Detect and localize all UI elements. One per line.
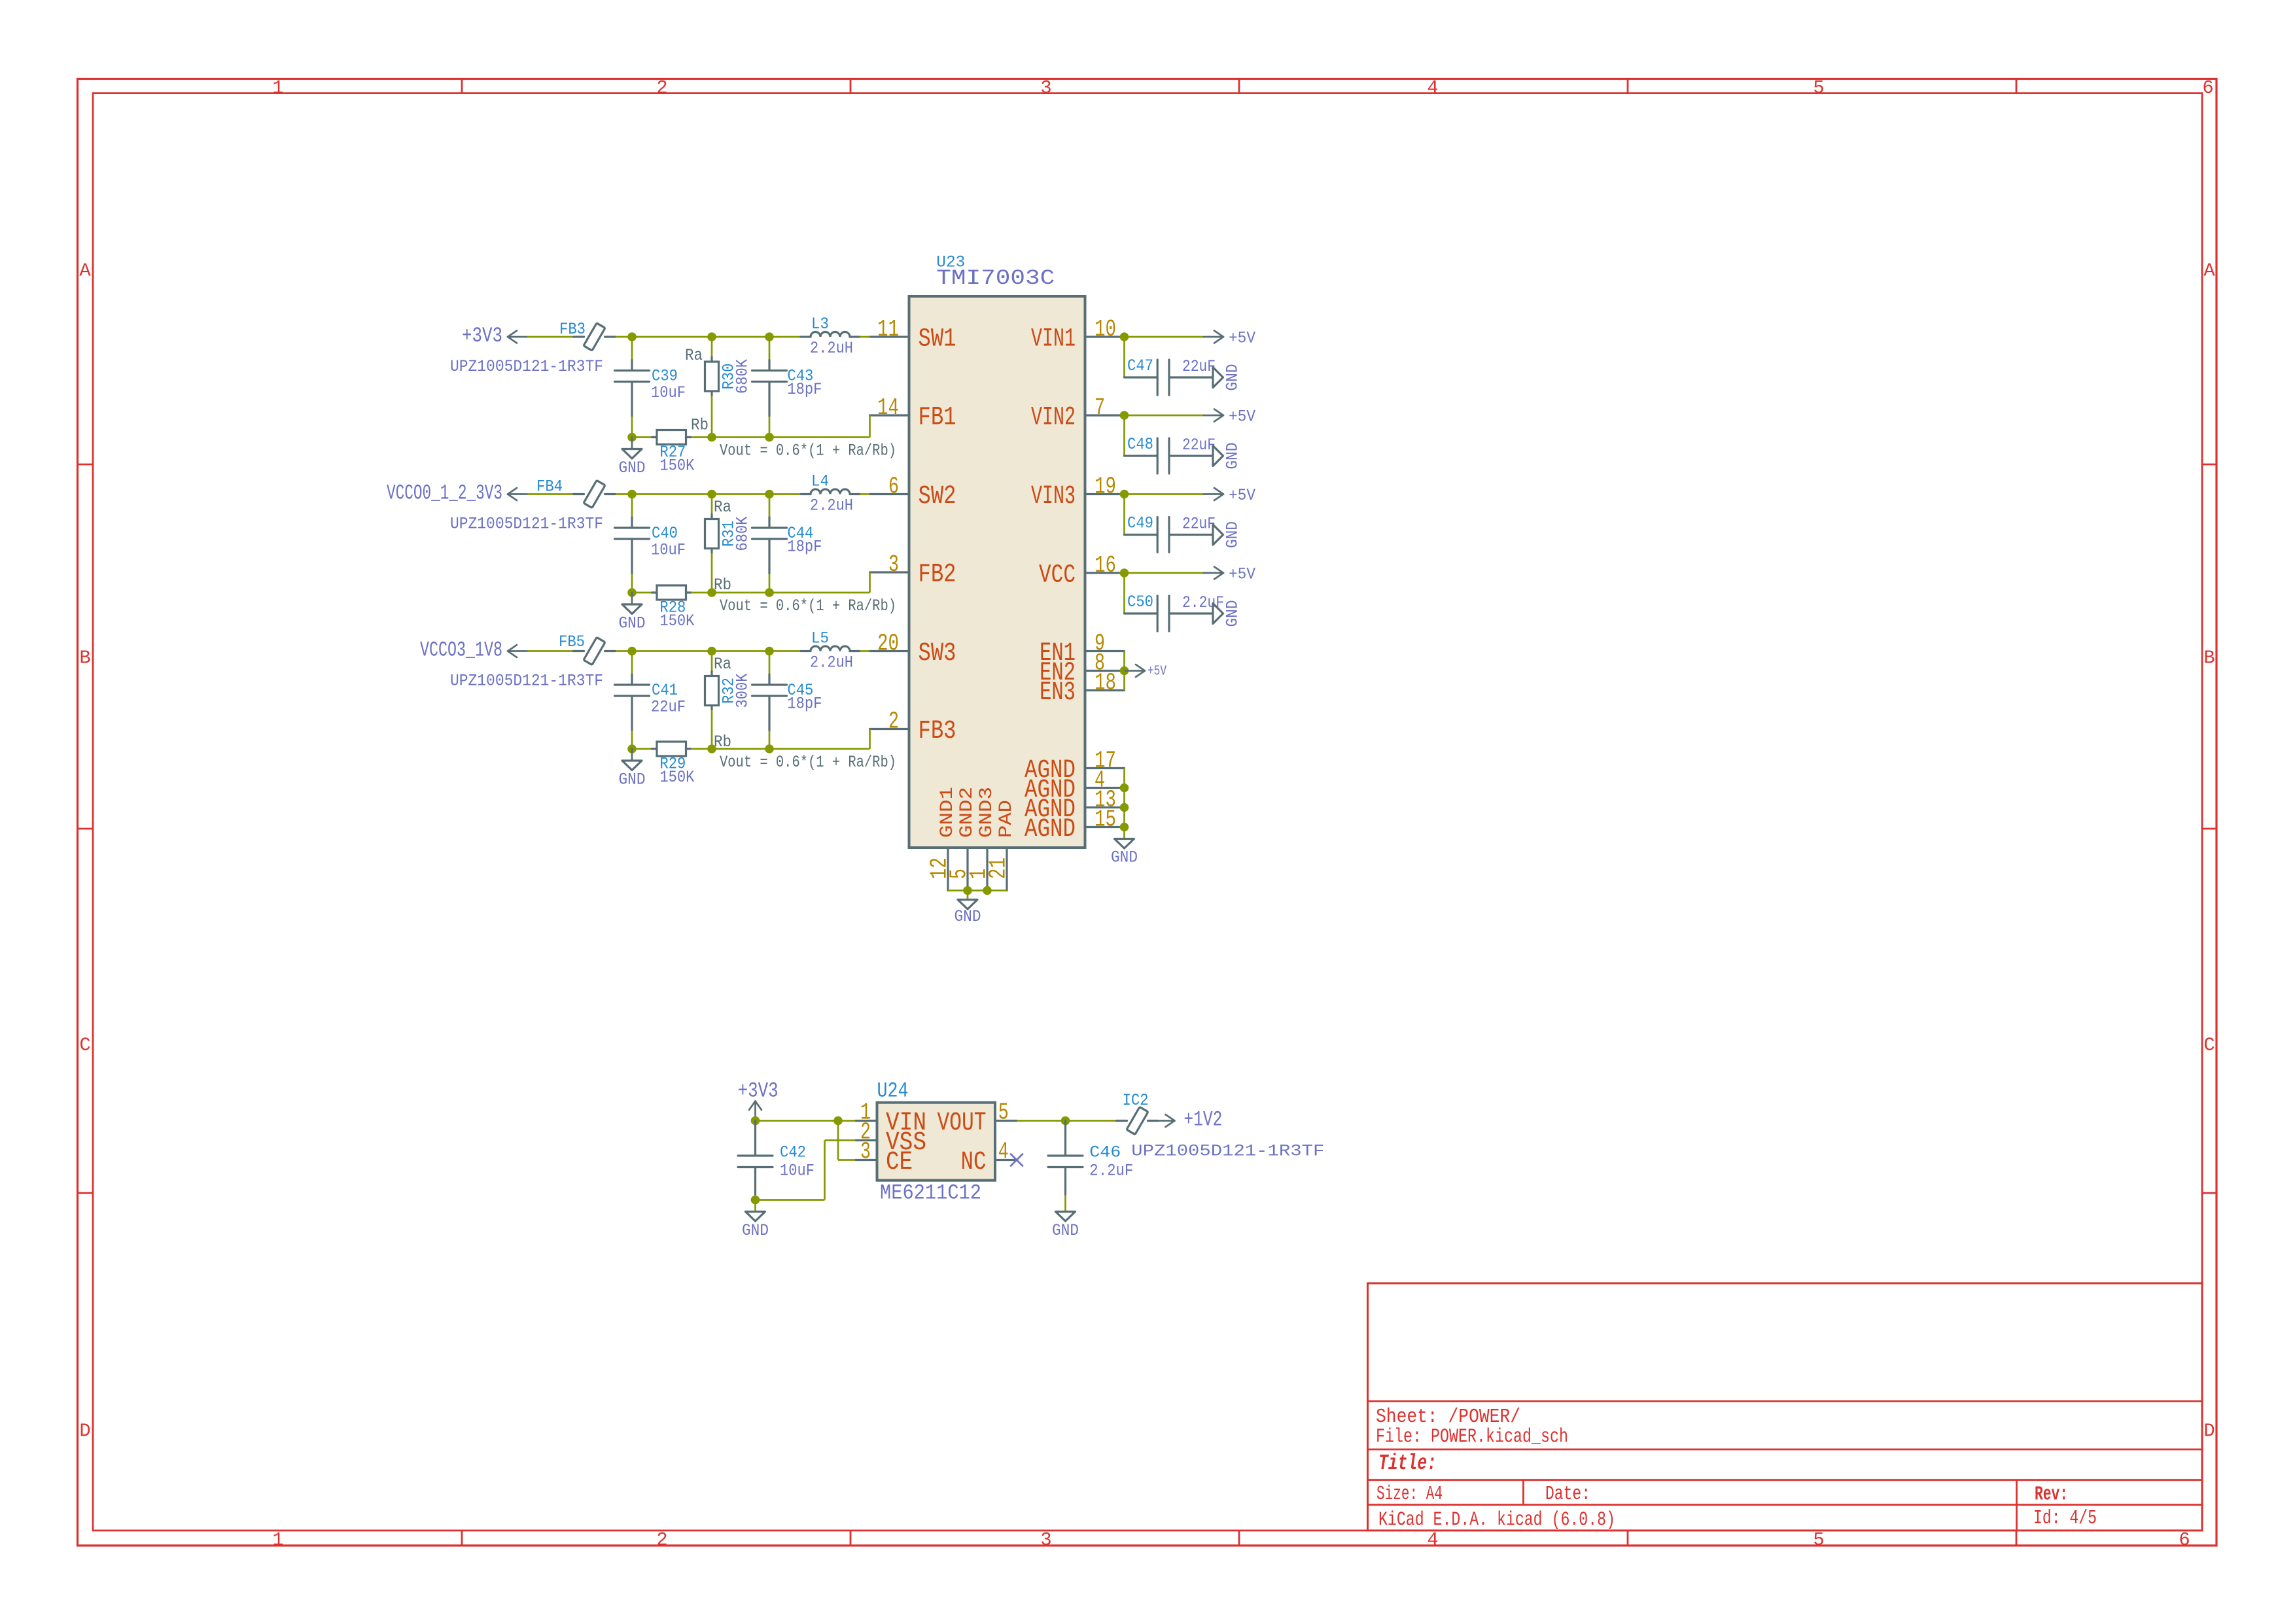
U24 pin 4 NC <box>995 1159 1017 1161</box>
ground <box>631 438 633 449</box>
svg-text:7: 7 <box>1095 394 1105 421</box>
svg-text:3: 3 <box>860 1139 871 1166</box>
svg-text:Vout = 0.6*(1 + Ra/Rb): Vout = 0.6*(1 + Ra/Rb) <box>720 753 896 772</box>
wire VSS down <box>825 1139 856 1141</box>
wire C40 col top lead <box>631 494 633 518</box>
svg-text:22uF: 22uF <box>1182 515 1216 534</box>
wire top rail 3 <box>769 493 801 495</box>
node AGND 15 <box>1120 823 1129 832</box>
svg-text:18pF: 18pF <box>787 538 822 557</box>
svg-text:GND: GND <box>955 907 981 926</box>
wire to +5V <box>1125 415 1204 417</box>
wire to +5V <box>1125 336 1204 338</box>
capacitor C43 <box>768 360 770 370</box>
svg-text:5: 5 <box>1813 1529 1824 1551</box>
U23 pin 11 SW1 <box>870 336 909 337</box>
wire C44 col top lead <box>769 494 771 518</box>
IC U23 body <box>909 296 1085 848</box>
svg-text:SW2: SW2 <box>919 481 956 511</box>
ground <box>1213 525 1223 545</box>
node VIN U24 <box>833 1116 843 1126</box>
capacitor C50 <box>1125 612 1157 614</box>
power flag +3V3 <box>508 336 527 338</box>
wire EN1-EN3 tie <box>1123 651 1125 691</box>
U23 pin 6 SW2 <box>870 493 909 495</box>
wire rail right <box>712 592 769 594</box>
ground <box>1213 604 1223 624</box>
wire rail left <box>632 748 652 750</box>
wire C43 col bottom lead <box>769 417 771 438</box>
wire R30 top lead <box>711 337 713 357</box>
svg-text:150K: 150K <box>659 612 694 631</box>
wire top rail 3 <box>769 336 801 338</box>
wire top rail 1 <box>632 650 712 652</box>
svg-text:Size: A4: Size: A4 <box>1376 1483 1443 1506</box>
wire C39 col top lead <box>631 337 633 360</box>
capacitor C41 <box>631 674 633 683</box>
svg-text:10uF: 10uF <box>651 541 686 560</box>
svg-text:L3: L3 <box>811 315 829 334</box>
wire R31 top lead <box>711 494 713 515</box>
svg-text:+5V: +5V <box>1147 665 1166 680</box>
wire top rail 2 <box>712 493 769 495</box>
node gnd rail <box>627 433 637 442</box>
power flag +1V2 <box>1159 1120 1175 1122</box>
node Rb <box>707 588 716 597</box>
svg-text:Title:: Title: <box>1378 1451 1437 1476</box>
svg-text:19: 19 <box>1095 474 1116 500</box>
svg-text:C: C <box>79 1035 90 1056</box>
svg-text:4: 4 <box>1427 1529 1438 1551</box>
svg-text:+5V: +5V <box>1229 329 1255 348</box>
node VIN C48 <box>1120 411 1129 420</box>
svg-text:2.2uH: 2.2uH <box>810 339 853 358</box>
U23 pin 1 GND3 <box>986 848 988 891</box>
svg-text:Sheet: /POWER/: Sheet: /POWER/ <box>1376 1406 1520 1428</box>
ground C42 <box>746 1212 765 1222</box>
wire rail mid <box>691 748 712 750</box>
svg-text:FB1: FB1 <box>919 403 956 432</box>
wire +3V3 to junction <box>756 1120 839 1122</box>
wire C41 col bottom lead <box>631 731 633 749</box>
svg-text:Rb: Rb <box>691 416 709 435</box>
wire down to C47 <box>1123 341 1125 377</box>
svg-text:FB3: FB3 <box>919 716 956 746</box>
wire bead to C node <box>616 650 632 652</box>
node GND3 <box>983 886 992 895</box>
svg-text:C47: C47 <box>1127 356 1153 375</box>
svg-text:File: POWER.kicad_sch: File: POWER.kicad_sch <box>1376 1426 1568 1449</box>
svg-text:CE: CE <box>886 1147 913 1177</box>
svg-text:UPZ1005D121-1R3TF: UPZ1005D121-1R3TF <box>450 672 603 691</box>
svg-text:Vout = 0.6*(1 + Ra/Rb): Vout = 0.6*(1 + Ra/Rb) <box>720 596 896 615</box>
svg-text:SW3: SW3 <box>919 638 956 668</box>
ferrite bead FB5 <box>574 650 584 652</box>
svg-text:GND3: GND3 <box>977 787 997 838</box>
U23 pin 13 AGND <box>1085 806 1125 808</box>
U24 pin 1 VIN <box>856 1120 877 1122</box>
svg-text:22uF: 22uF <box>651 698 686 717</box>
svg-text:18pF: 18pF <box>787 380 822 399</box>
svg-text:EN3: EN3 <box>1040 678 1076 707</box>
ferrite bead FB4 <box>574 493 584 495</box>
resistor R31 <box>710 515 712 519</box>
node top R32 <box>707 647 716 656</box>
svg-text:150K: 150K <box>659 457 694 475</box>
svg-text:UPZ1005D121-1R3TF: UPZ1005D121-1R3TF <box>450 357 603 376</box>
svg-text:20: 20 <box>877 631 899 657</box>
ground C46 <box>1056 1212 1076 1222</box>
U23 pin 19 VIN3 <box>1085 493 1125 495</box>
svg-text:10uF: 10uF <box>780 1162 815 1181</box>
svg-text:L4: L4 <box>811 472 829 491</box>
svg-text:VCCO0_1_2_3V3: VCCO0_1_2_3V3 <box>387 481 502 506</box>
svg-text:ME6211C12: ME6211C12 <box>880 1181 981 1205</box>
node VIN C47 <box>1120 332 1129 341</box>
svg-text:GND: GND <box>1223 364 1242 391</box>
capacitor C49 <box>1125 534 1157 536</box>
node AGND 4 <box>1120 784 1129 793</box>
IC U24 body <box>877 1103 996 1181</box>
svg-text:GND: GND <box>1223 521 1242 548</box>
svg-text:VIN3: VIN3 <box>1031 481 1076 511</box>
svg-text:KiCad E.D.A. kicad (6.0.8): KiCad E.D.A. kicad (6.0.8) <box>1378 1510 1615 1532</box>
power flag +5V <box>1204 336 1223 338</box>
node AGND 13 <box>1120 803 1129 812</box>
wire C44 col bottom lead <box>769 574 771 593</box>
svg-text:+5V: +5V <box>1229 565 1255 584</box>
wire rail to FB step <box>769 436 870 438</box>
resistor R27 <box>652 436 657 438</box>
svg-text:VCC: VCC <box>1039 561 1076 590</box>
svg-text:150K: 150K <box>659 768 694 787</box>
ferrite bead FB3 <box>574 336 584 337</box>
wire rail left <box>632 592 652 594</box>
node C46 <box>1061 1116 1070 1126</box>
capacitor C44 <box>768 517 770 527</box>
ground <box>631 749 633 761</box>
svg-text:C48: C48 <box>1127 435 1153 454</box>
node +3V3 U24 <box>751 1116 760 1126</box>
svg-text:PAD: PAD <box>996 800 1017 838</box>
wire rail mid <box>691 592 712 594</box>
svg-text:Id: 4/5: Id: 4/5 <box>2033 1508 2097 1530</box>
wire C45 col top lead <box>769 651 771 675</box>
wire down to C48 <box>1123 419 1125 456</box>
U23 pin 17 AGND <box>1085 767 1125 769</box>
svg-text:14: 14 <box>877 394 899 421</box>
svg-text:2.2uH: 2.2uH <box>810 496 853 515</box>
U23 pin 5 GND2 <box>966 848 968 891</box>
wire label to bead <box>527 336 574 338</box>
wire VOUT <box>1017 1120 1066 1122</box>
wire rail right <box>712 436 769 438</box>
U23 pin 20 SW3 <box>870 650 909 652</box>
svg-text:1: 1 <box>272 1529 283 1551</box>
svg-text:+5V: +5V <box>1229 486 1255 505</box>
svg-text:11: 11 <box>877 316 899 343</box>
svg-text:VIN2: VIN2 <box>1031 403 1076 432</box>
wire AGND down <box>1123 827 1125 839</box>
capacitor C42 <box>754 1121 756 1155</box>
wire CE tie <box>837 1121 839 1160</box>
wire R31 bottom lead <box>711 553 713 593</box>
power flag VCCO3_1V8 <box>508 650 527 652</box>
svg-text:16: 16 <box>1095 552 1116 579</box>
ferrite bead IC2 <box>1117 1120 1127 1122</box>
svg-text:1: 1 <box>272 77 283 99</box>
node top R30 <box>707 332 716 341</box>
svg-text:L5: L5 <box>811 629 829 648</box>
svg-text:GND: GND <box>1223 600 1242 627</box>
node gnd rail <box>627 744 637 753</box>
wire to +5V <box>1125 572 1204 574</box>
node gnd rail <box>627 588 637 597</box>
svg-text:D: D <box>2203 1421 2215 1442</box>
node Rb <box>707 433 716 442</box>
U24 pin 2 VSS <box>856 1139 877 1141</box>
svg-text:+1V2: +1V2 <box>1183 1108 1222 1132</box>
svg-text:C: C <box>2203 1035 2215 1056</box>
wire C40 col bottom lead <box>631 574 633 593</box>
svg-text:Rev:: Rev: <box>2035 1484 2068 1506</box>
capacitor C48 <box>1125 455 1157 457</box>
svg-text:GND: GND <box>619 458 646 477</box>
svg-text:680K: 680K <box>733 359 752 394</box>
node C43 bottom <box>765 433 774 442</box>
node C45 bottom <box>765 744 774 753</box>
wire inductor to pin <box>860 493 870 495</box>
resistor R28 <box>652 591 657 593</box>
wire top rail 2 <box>712 336 769 338</box>
node VIN C49 <box>1120 490 1129 499</box>
wire label to bead <box>527 493 574 495</box>
svg-text:TMI7003C: TMI7003C <box>936 266 1055 290</box>
wire bottom gnd <box>948 890 1007 891</box>
ground <box>1213 446 1223 466</box>
svg-text:GND: GND <box>619 614 646 633</box>
U23 pin 10 VIN1 <box>1085 336 1125 337</box>
wire top rail 3 <box>769 650 801 652</box>
svg-text:+3V3: +3V3 <box>738 1079 779 1103</box>
svg-text:21: 21 <box>985 857 1012 879</box>
wire C39 col bottom lead <box>631 417 633 438</box>
svg-text:SW1: SW1 <box>919 324 956 354</box>
svg-text:IC2: IC2 <box>1123 1091 1149 1110</box>
wire inductor to pin <box>860 650 870 652</box>
wire to IC2 <box>1066 1120 1117 1122</box>
power flag +5V <box>1125 670 1145 672</box>
wire to gnd <box>754 1200 756 1212</box>
svg-text:GND: GND <box>619 770 646 789</box>
svg-text:C50: C50 <box>1127 593 1153 612</box>
power flag +3V3 <box>754 1101 756 1121</box>
wire C42 bottom <box>754 1195 756 1200</box>
node top R31 <box>707 490 716 499</box>
wire C43 col top lead <box>769 337 771 360</box>
wire rail mid <box>691 436 712 438</box>
svg-text:FB5: FB5 <box>559 632 585 651</box>
ground AGND <box>1115 839 1134 849</box>
svg-text:FB2: FB2 <box>919 560 956 589</box>
wire top rail 2 <box>712 650 769 652</box>
U23 pin 8 EN2 <box>1085 670 1125 672</box>
svg-text:U24: U24 <box>877 1079 909 1103</box>
svg-text:FB4: FB4 <box>536 477 563 496</box>
svg-text:+5V: +5V <box>1229 407 1255 426</box>
wire rail left <box>632 436 652 438</box>
svg-text:3: 3 <box>888 551 899 578</box>
svg-text:UPZ1005D121-1R3TF: UPZ1005D121-1R3TF <box>450 515 603 534</box>
svg-text:B: B <box>2203 648 2215 669</box>
svg-text:GND2: GND2 <box>957 787 977 838</box>
wire top rail 1 <box>632 493 712 495</box>
wire AGND tie <box>1123 769 1125 827</box>
node top C41 <box>627 647 637 656</box>
U23 pin 15 AGND <box>1085 826 1125 828</box>
wire junction to VIN pin <box>838 1120 856 1122</box>
power flag +5V <box>1204 415 1223 417</box>
svg-text:Date:: Date: <box>1545 1483 1590 1506</box>
node top C39 <box>627 332 637 341</box>
svg-text:A: A <box>79 260 91 282</box>
wire C41 col top lead <box>631 651 633 675</box>
U24 pin 5 VOUT <box>995 1120 1017 1122</box>
svg-text:4: 4 <box>1427 77 1438 99</box>
wire gnd drop <box>967 891 969 900</box>
svg-text:22uF: 22uF <box>1182 357 1216 376</box>
svg-text:GND: GND <box>1052 1221 1079 1240</box>
svg-text:5: 5 <box>1813 77 1824 99</box>
U23 pin 2 FB3 <box>870 728 909 730</box>
svg-text:2: 2 <box>656 1529 667 1551</box>
svg-text:VCCO3_1V8: VCCO3_1V8 <box>420 638 502 663</box>
svg-text:6: 6 <box>888 474 899 500</box>
wire rail to FB step <box>769 748 870 750</box>
U23 pin 12 GND1 <box>947 848 949 891</box>
svg-text:300K: 300K <box>733 674 752 708</box>
resistor R32 <box>710 672 712 676</box>
node EN2 <box>1120 666 1129 676</box>
svg-text:2: 2 <box>888 708 899 735</box>
ground bottom <box>958 900 977 910</box>
node top C43 <box>765 332 774 341</box>
capacitor C47 <box>1125 376 1157 378</box>
wire down to C49 <box>1123 498 1125 535</box>
wire C46 bottom <box>1064 1195 1066 1212</box>
no-connect x <box>1011 1154 1023 1166</box>
U23 pin 4 AGND <box>1085 787 1125 789</box>
svg-text:NC: NC <box>961 1147 987 1177</box>
svg-text:2.2uF: 2.2uF <box>1089 1162 1133 1181</box>
svg-text:4: 4 <box>998 1139 1009 1166</box>
svg-text:A: A <box>2203 260 2215 282</box>
svg-text:C49: C49 <box>1127 514 1153 533</box>
power flag +5V <box>1204 572 1223 574</box>
svg-text:C42: C42 <box>780 1143 806 1162</box>
svg-text:+3V3: +3V3 <box>462 324 502 348</box>
svg-text:D: D <box>79 1421 90 1442</box>
capacitor C40 <box>631 517 633 527</box>
title block <box>1368 1283 2203 1530</box>
U23 pin 18 EN3 <box>1085 689 1125 691</box>
svg-text:Ra: Ra <box>714 655 731 674</box>
wire rail right <box>712 748 769 750</box>
wire rail to FB step <box>769 592 870 594</box>
svg-text:10uF: 10uF <box>651 383 686 402</box>
wire R30 bottom lead <box>711 396 713 438</box>
svg-text:VOUT: VOUT <box>937 1108 987 1137</box>
svg-text:C46: C46 <box>1089 1143 1121 1162</box>
svg-text:680K: 680K <box>733 517 752 551</box>
U23 pin 7 VIN2 <box>1085 414 1125 416</box>
wire bead to C node <box>616 493 632 495</box>
svg-text:FB3: FB3 <box>559 320 586 339</box>
svg-text:GND: GND <box>1111 848 1138 867</box>
U23 pin 16 VCC <box>1085 572 1125 574</box>
wire down to C50 <box>1123 577 1125 613</box>
U23 pin 3 FB2 <box>870 571 909 573</box>
ground <box>631 593 633 604</box>
power flag +5V <box>1204 493 1223 495</box>
resistor R30 <box>710 357 712 362</box>
inductor L5 <box>801 650 811 652</box>
svg-text:10: 10 <box>1095 316 1116 343</box>
wire R32 bottom lead <box>711 710 713 750</box>
resistor R29 <box>652 748 657 750</box>
inductor L3 <box>801 336 811 337</box>
svg-text:3: 3 <box>1040 1529 1051 1551</box>
capacitor C39 <box>631 360 633 370</box>
node top C40 <box>627 490 637 499</box>
wire inductor to pin <box>860 336 870 338</box>
ground <box>1213 368 1223 388</box>
node VIN C50 <box>1120 568 1129 578</box>
node C42 gnd <box>751 1196 760 1205</box>
svg-text:GND: GND <box>1223 443 1242 470</box>
svg-text:Vout = 0.6*(1 + Ra/Rb): Vout = 0.6*(1 + Ra/Rb) <box>720 441 896 460</box>
wire bead to C node <box>616 336 632 338</box>
svg-text:VIN1: VIN1 <box>1031 324 1076 354</box>
svg-text:2.2uH: 2.2uH <box>810 653 853 672</box>
node top C45 <box>765 647 774 656</box>
svg-text:22uF: 22uF <box>1182 436 1216 455</box>
svg-text:18pF: 18pF <box>787 695 822 714</box>
inductor L4 <box>801 493 811 495</box>
svg-text:6: 6 <box>2202 77 2213 99</box>
svg-text:15: 15 <box>1095 806 1116 833</box>
svg-text:3: 3 <box>1040 77 1051 99</box>
svg-text:UPZ1005D121-1R3TF: UPZ1005D121-1R3TF <box>1131 1142 1324 1161</box>
wire label to bead <box>527 650 574 652</box>
svg-text:B: B <box>79 648 90 669</box>
wire R32 top lead <box>711 651 713 672</box>
svg-text:18: 18 <box>1095 670 1116 697</box>
U23 pin 21 PAD <box>1006 848 1007 891</box>
svg-text:2: 2 <box>656 77 667 99</box>
node C44 bottom <box>765 588 774 597</box>
capacitor C46 <box>1064 1121 1066 1155</box>
svg-text:GND: GND <box>742 1221 769 1240</box>
node GND2 <box>963 886 972 895</box>
svg-text:Ra: Ra <box>714 498 731 517</box>
U23 pin 14 FB1 <box>870 414 909 416</box>
svg-text:GND1: GND1 <box>937 787 958 838</box>
wire to +5V <box>1125 493 1204 495</box>
wire C45 col bottom lead <box>769 731 771 749</box>
U24 pin 3 CE <box>856 1159 877 1161</box>
node top C44 <box>765 490 774 499</box>
